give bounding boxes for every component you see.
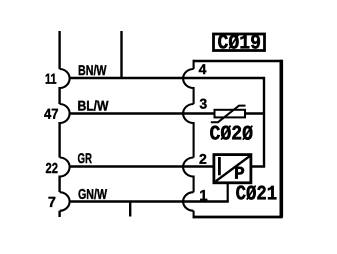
- svg-text:2: 2: [199, 151, 207, 167]
- node pin 22 socket bump: [60, 158, 70, 177]
- label box C019: [214, 34, 265, 51]
- wire BL/W net: pin 47 to thermistor: [69, 112, 215, 114]
- svg-text:7: 7: [48, 195, 56, 211]
- svg-text:1: 1: [199, 187, 207, 204]
- svg-text:P: P: [234, 165, 245, 185]
- svg-text:GN/W: GN/W: [78, 186, 108, 202]
- svg-text:CØ21: CØ21: [236, 183, 278, 206]
- connector C019 outline left edge segments: [193, 60, 195, 219]
- wire GN/W net: pin 7 to sensor bottom junction: [69, 200, 229, 202]
- node pin 11 socket bump: [60, 69, 70, 88]
- svg-text:3: 3: [199, 96, 207, 112]
- svg-text:CØ2Ø: CØ2Ø: [209, 123, 253, 146]
- node pin 7 socket bump: [60, 192, 70, 211]
- connector pin 3 socket bump: [183, 104, 193, 123]
- wire GR net: pin 22 to pressure sensor: [69, 165, 215, 167]
- connector pin 1 socket bump: [183, 192, 194, 211]
- svg-text:GR: GR: [77, 150, 92, 166]
- svg-text:11: 11: [45, 72, 57, 88]
- svg-text:4: 4: [199, 61, 207, 77]
- svg-text:BN/W: BN/W: [78, 62, 107, 78]
- wire: stub dropping from GN/W net: [129, 202, 131, 217]
- pressure sensor C021 body: [214, 155, 251, 183]
- connector pin 4 socket bump: [183, 69, 193, 88]
- wire: sensor bottom lead to GN/W net: [227, 182, 229, 202]
- thermistor C020 body: [215, 110, 246, 118]
- pressure sensor C021 diagonal: [216, 156, 250, 181]
- connector C019 outline top edge: [194, 60, 283, 63]
- wire: left vertical bus: [58, 31, 60, 217]
- wire: thermistor right lead to common rail: [245, 112, 264, 114]
- wire BN/W net: pin 11 to connector pin 4 then to common rail corner: [69, 78, 264, 167]
- node pin 47 socket bump: [60, 104, 70, 123]
- wire: second vertical drop to BN/W net: [120, 31, 122, 78]
- svg-text:22: 22: [45, 161, 58, 177]
- thermistor C020 strike-through: [211, 106, 246, 123]
- svg-text:CØ19: CØ19: [217, 32, 261, 55]
- connector pin 2 socket bump: [183, 158, 193, 177]
- connector C019 outline bottom edge: [194, 216, 283, 219]
- pressure sensor C021 inner bar: [218, 157, 221, 175]
- svg-text:47: 47: [44, 107, 59, 123]
- connector C019 outline right edge: [279, 60, 283, 218]
- svg-text:BL/W: BL/W: [77, 98, 109, 114]
